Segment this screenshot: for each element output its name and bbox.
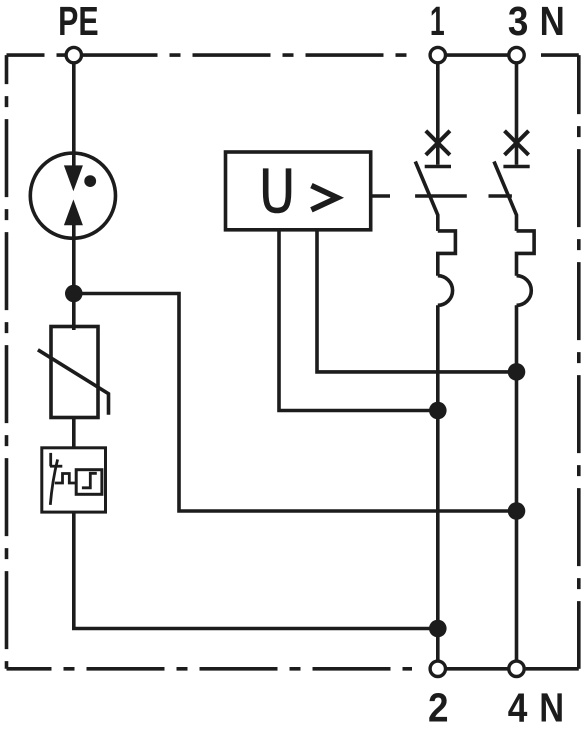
disconnect switch S2 blade bbox=[494, 162, 517, 231]
svg-text:3: 3 bbox=[508, 0, 529, 45]
breaker S1 coil arc bbox=[438, 276, 453, 306]
U> letter U bbox=[266, 168, 289, 210]
disconnect switch S2 cross mark bbox=[505, 131, 529, 155]
svg-text:2: 2 bbox=[428, 686, 449, 731]
disconnector signal square wave bbox=[55, 474, 76, 484]
U> greater-than sign bbox=[311, 186, 337, 210]
linkage wire segment b bbox=[415, 194, 467, 198]
enclosure border right bbox=[577, 55, 581, 669]
terminal 2 bbox=[430, 661, 445, 676]
svg-text:4: 4 bbox=[508, 685, 528, 731]
terminal 3 bbox=[509, 47, 524, 62]
enclosure border top left run bbox=[7, 53, 417, 57]
wire line 1-2 lower bbox=[436, 305, 440, 661]
spark gap triangle up bbox=[64, 199, 83, 225]
spark gap U1 circle bbox=[30, 153, 115, 238]
node junction line2 at 628 bbox=[429, 620, 447, 638]
wire PE vertical lower bbox=[72, 220, 76, 330]
breaker S2 coil arc bbox=[517, 276, 532, 306]
breaker S2 thermal notch bbox=[517, 231, 535, 276]
enclosure border left bbox=[5, 55, 9, 669]
disconnector contact box bbox=[76, 470, 102, 495]
wire line 3-4 lower bbox=[515, 305, 519, 661]
terminal 4 bbox=[509, 661, 524, 676]
disconnect switch S1 cross mark bbox=[426, 131, 450, 155]
node junction on PE line bbox=[65, 285, 83, 303]
svg-text:N: N bbox=[540, 0, 565, 45]
svg-text:1: 1 bbox=[430, 0, 445, 45]
wire varistor to disconnector bbox=[72, 418, 76, 448]
spark gap triangle down bbox=[64, 165, 83, 191]
disconnector crossbar bbox=[50, 465, 62, 468]
node junction N line at 511 bbox=[508, 502, 526, 520]
node junction line1 at 410 bbox=[429, 402, 447, 420]
disconnect switch S2 contact bar bbox=[503, 165, 529, 169]
enclosure border bottom right run bbox=[526, 667, 579, 671]
op-amp U2 box U> bbox=[226, 152, 371, 230]
enclosure border top right run bbox=[541, 53, 579, 57]
svg-text:PE: PE bbox=[58, 0, 98, 44]
wire PE branch right bbox=[74, 294, 517, 512]
node junction N at 372 bbox=[508, 363, 526, 381]
wire U> stub B bbox=[317, 230, 517, 372]
wire disconnector to node 2 bbox=[74, 512, 438, 628]
enclosure border bottom left run bbox=[7, 667, 413, 671]
enclosure border bottom between terminals bbox=[447, 667, 510, 671]
wire terminal 3 down bbox=[515, 55, 519, 165]
wire terminal 1 down bbox=[436, 55, 440, 165]
wire PE vertical upper bbox=[72, 55, 76, 170]
disconnect switch S1 blade bbox=[415, 162, 438, 231]
wire U> stub A bbox=[279, 230, 438, 411]
disconnector contact step bbox=[82, 473, 97, 488]
terminal PE bbox=[66, 47, 81, 62]
enclosure border top between terminals bbox=[447, 53, 510, 57]
disconnector indicator box bbox=[42, 448, 106, 512]
linkage wire segment c bbox=[489, 194, 512, 198]
disconnect switch S1 contact bar bbox=[425, 165, 451, 169]
disconnector blade bbox=[50, 459, 57, 505]
linkage wire segment a bbox=[371, 194, 390, 198]
varistor RV1 diagonal bbox=[38, 350, 109, 415]
terminal 1 bbox=[430, 47, 445, 62]
spark gap dot bbox=[84, 175, 96, 187]
svg-text:N: N bbox=[539, 686, 564, 731]
varistor RV1 body bbox=[51, 327, 98, 418]
breaker S1 thermal notch bbox=[438, 231, 456, 276]
disconnector blade stub bbox=[49, 453, 52, 466]
